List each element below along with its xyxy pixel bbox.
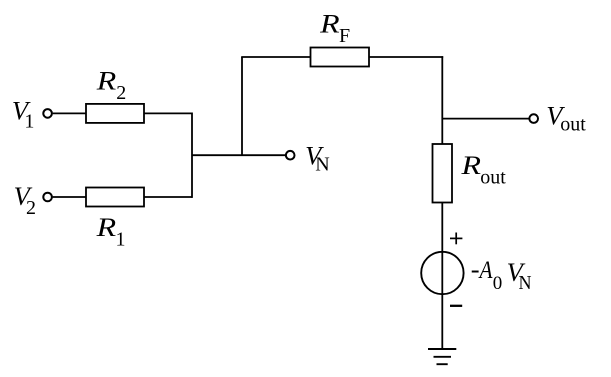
wire [53,112,86,114]
wire [369,56,443,58]
svg-text:R: R [460,150,481,180]
source U1 plus sign [450,233,462,245]
svg-text:1: 1 [24,111,34,133]
node Vout terminal [529,114,538,123]
svg-text:out: out [560,114,586,136]
svg-text:F: F [339,25,350,47]
label V1 [12,96,35,133]
wire [442,118,529,120]
wire [192,154,285,156]
resistor Rout [433,144,453,203]
svg-text:2: 2 [26,197,36,219]
resistor RF [311,48,370,67]
svg-text:N: N [519,272,532,294]
wire [241,57,243,155]
source U1 minus sign [450,305,462,307]
label R1 [95,212,125,250]
label Rout [460,150,506,188]
svg-text:N: N [315,153,329,175]
label V2 [14,181,36,219]
node VN terminal [286,151,295,160]
ground [428,349,456,364]
svg-text:0: 0 [493,273,503,294]
label VN [305,140,330,175]
wire [441,203,443,350]
wire [144,112,192,114]
node V2 terminal [43,193,52,202]
wire [241,56,310,58]
wire [144,196,192,198]
svg-text:out: out [480,167,506,189]
node V1 terminal [43,109,52,118]
svg-text:2: 2 [116,82,126,104]
label RF [319,9,350,48]
svg-text:R: R [319,9,340,39]
resistor R1 [86,188,144,207]
wire [441,56,443,144]
svg-text:-: - [471,254,480,284]
svg-text:A: A [478,257,493,284]
svg-text:1: 1 [116,228,126,250]
source U1 dependent voltage source [421,252,463,294]
svg-text:R: R [96,66,117,96]
label Vout [546,101,586,136]
label -A0VN [471,254,532,294]
wire [53,196,86,198]
label R2 [96,66,127,104]
resistor R2 [86,104,144,123]
wire junction vertical [191,113,193,198]
svg-text:R: R [95,212,116,242]
